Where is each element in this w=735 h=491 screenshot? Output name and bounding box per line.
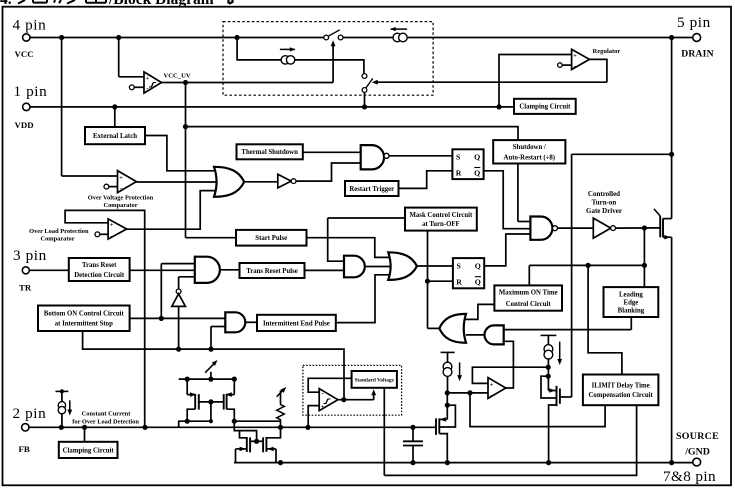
- svg-text:Edge: Edge: [624, 299, 639, 306]
- svg-text:4 pin: 4 pin: [13, 17, 47, 34]
- svg-text:DRAIN: DRAIN: [681, 48, 713, 59]
- svg-text:Trans Reset Pulse: Trans Reset Pulse: [246, 268, 298, 275]
- svg-text:Constant Current: Constant Current: [82, 410, 132, 417]
- svg-text:SOURCE: SOURCE: [676, 431, 719, 442]
- svg-text:/Block Diagram: /Block Diagram: [108, 0, 214, 8]
- svg-text:+: +: [321, 403, 325, 410]
- svg-text:S: S: [456, 153, 460, 162]
- svg-text:R: R: [456, 169, 462, 178]
- svg-text:/GND: /GND: [684, 446, 710, 457]
- svg-text:Mask Control Circuit: Mask Control Circuit: [409, 212, 473, 219]
- svg-text:Compensation Circuit: Compensation Circuit: [589, 392, 654, 399]
- svg-text:Bottom ON Control Circuit: Bottom ON Control Circuit: [44, 311, 125, 318]
- svg-text:2 pin: 2 pin: [13, 405, 47, 422]
- svg-text:Over Load Protection: Over Load Protection: [29, 228, 89, 235]
- svg-text:Clamping Circuit: Clamping Circuit: [63, 447, 115, 454]
- svg-text:Shutdown /: Shutdown /: [513, 144, 546, 151]
- svg-text:Gate Driver: Gate Driver: [586, 207, 622, 215]
- svg-text:Maximum ON Time: Maximum ON Time: [499, 290, 558, 297]
- svg-text:Start Pulse: Start Pulse: [255, 235, 287, 242]
- svg-text:1 pin: 1 pin: [14, 83, 48, 100]
- svg-text:Q: Q: [474, 169, 480, 178]
- svg-text:Intermittent End Pulse: Intermittent End Pulse: [263, 320, 330, 327]
- svg-text:Restart Trigger: Restart Trigger: [349, 186, 394, 193]
- svg-text:Q: Q: [474, 153, 480, 162]
- svg-text:3 pin: 3 pin: [13, 247, 47, 264]
- svg-text:at Intermittent Stop: at Intermittent Stop: [55, 321, 113, 328]
- svg-text:Regulator: Regulator: [593, 48, 621, 55]
- svg-text:+: +: [146, 75, 150, 82]
- svg-text:+: +: [119, 174, 123, 181]
- svg-text:+: +: [490, 381, 494, 388]
- svg-text:TR: TR: [19, 282, 32, 292]
- svg-text:External Latch: External Latch: [93, 133, 137, 140]
- svg-text:5 pin: 5 pin: [677, 14, 711, 31]
- svg-text:Comparator: Comparator: [103, 202, 137, 209]
- svg-text:4.: 4.: [0, 0, 12, 8]
- svg-text:Comparator: Comparator: [40, 236, 74, 243]
- svg-text:Q: Q: [475, 261, 481, 270]
- svg-text:Clamping Circuit: Clamping Circuit: [519, 104, 571, 111]
- svg-text:Q: Q: [475, 278, 481, 287]
- svg-text:Auto-Restart (÷8): Auto-Restart (÷8): [504, 154, 555, 161]
- svg-text:Blanking: Blanking: [618, 307, 645, 314]
- svg-text:Control Circuit: Control Circuit: [506, 301, 552, 308]
- svg-text:Controlled: Controlled: [588, 190, 620, 198]
- svg-text:Over Voltage Protection: Over Voltage Protection: [88, 194, 154, 201]
- svg-text:VCC: VCC: [15, 49, 34, 59]
- svg-text:Standard Voltage: Standard Voltage: [355, 377, 395, 383]
- svg-text:Leading: Leading: [619, 291, 643, 298]
- svg-text:at Turn-OFF: at Turn-OFF: [422, 221, 460, 228]
- svg-text:ILIMIT Delay Time: ILIMIT Delay Time: [592, 382, 650, 389]
- svg-text:S: S: [457, 261, 461, 270]
- svg-text:VDD: VDD: [15, 120, 34, 130]
- svg-text:+: +: [573, 53, 577, 60]
- svg-text:for Over Load Detection: for Over Load Detection: [72, 419, 139, 426]
- svg-text:Detection Circuit: Detection Circuit: [74, 272, 125, 279]
- svg-text:+: +: [110, 221, 114, 228]
- svg-text:7&8 pin: 7&8 pin: [663, 468, 716, 485]
- svg-text:VCC_UV: VCC_UV: [164, 73, 191, 80]
- svg-text:FB: FB: [19, 444, 30, 454]
- svg-text:Trans Reset: Trans Reset: [82, 262, 117, 269]
- svg-text:Thermal Shutdown: Thermal Shutdown: [241, 149, 298, 156]
- svg-text:R: R: [456, 278, 462, 287]
- svg-text:Turn-on: Turn-on: [592, 199, 617, 207]
